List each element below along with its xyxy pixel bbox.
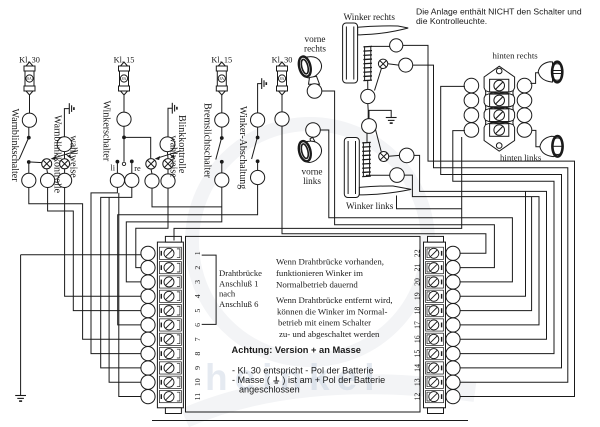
svg-text:betrieb mit einem Schalter: betrieb mit einem Schalter [278, 318, 371, 328]
rear terminal left [464, 93, 479, 108]
wire lamp to common diagonal [375, 68, 382, 90]
junction [220, 136, 224, 140]
svg-text:hinten links: hinten links [500, 152, 542, 162]
screw terminal 17 [446, 318, 460, 332]
junction switch bottom [27, 160, 31, 164]
coil winker rechts (solenoid) [363, 46, 372, 80]
svg-text:Kl. 30: Kl. 30 [272, 56, 293, 65]
terminal [145, 174, 159, 188]
screw terminal 8 [141, 347, 155, 361]
rear block mounting hole top [496, 68, 502, 74]
svg-text:16: 16 [412, 335, 421, 343]
wire switch common [123, 137, 125, 161]
svg-text:Drahtbrücke: Drahtbrücke [219, 268, 262, 278]
rear screw terminal 4 [490, 124, 509, 137]
arrow wahlweise group2 [156, 151, 181, 160]
wire [257, 127, 259, 137]
contact li [116, 160, 120, 164]
ground glyph in text [273, 377, 279, 384]
terminal winker links top [362, 119, 377, 134]
wire coil bottom to terminal [367, 174, 390, 177]
lamp winker rechts [378, 59, 387, 68]
svg-text:Wenn Drahtbrücke entfernt wird: Wenn Drahtbrücke entfernt wird, [276, 295, 393, 305]
screw terminal 15 [446, 347, 460, 361]
svg-text:) ist am + Pol der Batterie: ) ist am + Pol der Batterie [282, 375, 385, 385]
screw terminal 20 [446, 275, 460, 289]
svg-text:die Kontrolleuchte.: die Kontrolleuchte. [416, 16, 487, 26]
wire Warnblink out to terminal 7 [29, 188, 141, 340]
terminal strip left (1-11) [157, 242, 183, 408]
svg-text:Die Anlage enthält NICHT den S: Die Anlage enthält NICHT den Schalter un… [416, 7, 582, 17]
svg-text:13: 13 [412, 378, 421, 386]
svg-text:- Masse (: - Masse ( [232, 375, 270, 385]
svg-text:Achtung: Version + an Masse: Achtung: Version + an Masse [232, 345, 361, 355]
terminal re [125, 173, 139, 187]
screw terminal 3 [141, 275, 155, 289]
wire winker links lamp to terminal 16 [414, 155, 547, 339]
lamp vorne rechts [297, 55, 322, 84]
svg-text:funktionieren Winker im: funktionieren Winker im [276, 268, 363, 278]
svg-text:angeschlossen: angeschlossen [239, 385, 300, 395]
switch Warnblinkschalter blade [19, 139, 28, 160]
rear terminal left [464, 123, 479, 138]
rear screw terminal 1 [490, 79, 509, 92]
terminal vorne links [306, 123, 321, 138]
wire [131, 161, 133, 173]
screw terminal 19 [446, 289, 460, 303]
screw terminal 9 [141, 361, 155, 375]
watermark logo [185, 124, 475, 418]
wire c3 to terminal 4 [65, 188, 141, 297]
wire [64, 169, 66, 174]
svg-text:15: 15 [412, 350, 421, 358]
svg-text:können die Winker im Normal-: können die Winker im Normal- [277, 306, 387, 316]
svg-text:nach: nach [219, 289, 236, 299]
svg-text:li: li [111, 164, 116, 173]
svg-text:8A: 8A [27, 77, 32, 81]
wire Blinkkontrolle lamp to terminal 2 [136, 188, 168, 268]
wire to ground [64, 109, 69, 137]
wire up to ground line [368, 110, 370, 118]
switch Winkerschalter pivot [122, 162, 125, 165]
svg-text:wahlweise: wahlweise [167, 136, 178, 179]
wire Kl30 supply to terminal 22 [282, 126, 486, 253]
fuse fuse Kl. 30 (Warnblinkschalter) [24, 62, 35, 95]
terminal winker rechts lamp [399, 58, 413, 72]
wire to terminal 5 [48, 188, 141, 311]
wire to lamp [31, 161, 42, 164]
wire to terminal 11 [119, 193, 141, 397]
wire winker rechts top to terminal 12 [403, 45, 575, 396]
svg-text:wahlweise: wahlweise [68, 136, 79, 179]
ground Winker-Abschaltung [262, 78, 267, 89]
fuse fuse Kl. 15 (Winkerschalter) [119, 62, 130, 95]
rear terminal right [517, 108, 532, 123]
terminal Warnblinkschalter out [22, 173, 36, 187]
lamp hinten rechts [538, 62, 562, 83]
wire rear right 1 to hinten rechts lamp [530, 73, 539, 84]
wire Abschaltung to terminal 6 [118, 185, 258, 325]
screw terminal 22 [446, 246, 460, 260]
wire li to terminal 8 [91, 187, 141, 353]
wire [257, 161, 259, 170]
wire arm area to junction [397, 196, 462, 209]
ground winker [386, 118, 397, 124]
terminal Bremslicht out [215, 173, 229, 187]
wire [64, 152, 66, 159]
relay unit box [186, 236, 421, 412]
rear junction block body [484, 66, 514, 151]
wire [388, 64, 399, 65]
svg-text:17: 17 [412, 321, 421, 329]
wire [221, 127, 223, 138]
svg-text:Normalbetrieb dauernd: Normalbetrieb dauernd [276, 279, 358, 289]
svg-text:Wenn Drahtbrücke vorhanden,: Wenn Drahtbrücke vorhanden, [276, 257, 384, 267]
rear screw terminal 3 [490, 109, 509, 122]
wire to ground [258, 84, 262, 113]
svg-text:Winkerschalter: Winkerschalter [100, 101, 111, 162]
svg-text:6: 6 [193, 323, 202, 327]
terminal [161, 174, 175, 188]
svg-text:7: 7 [193, 337, 202, 341]
svg-text:11: 11 [193, 393, 202, 401]
ground Warnblinkkontrolle [69, 103, 74, 114]
rear terminal right [517, 123, 532, 138]
wire Blinkkontrolle lamp to Bremslicht column [152, 188, 222, 207]
terminal [58, 173, 72, 187]
terminal vorne rechts [307, 84, 322, 99]
svg-text:Kl. 15: Kl. 15 [114, 56, 135, 65]
wire vorne rechts to terminal 21 [322, 91, 495, 268]
terminal [251, 113, 265, 127]
screw terminal 16 [446, 332, 460, 346]
svg-text:21: 21 [412, 264, 421, 272]
rear block mounting hole bottom [496, 143, 502, 149]
svg-text:14: 14 [412, 364, 421, 372]
fuse fuse Kl. 30 (supply) [277, 62, 288, 95]
lamp Warnblinkkontrolle left [42, 159, 52, 169]
rear terminal left [464, 78, 479, 93]
terminal winker rechts common [361, 89, 375, 103]
wire [123, 95, 125, 112]
terminal [41, 173, 55, 187]
svg-text:8A: 8A [280, 77, 285, 81]
wire [28, 162, 30, 173]
switch Winker-Abschaltung blade [252, 138, 258, 159]
svg-text:Kl. 30: Kl. 30 [19, 56, 40, 65]
screw terminal 2 [141, 261, 155, 275]
jumper Drahtbruecke 1-6 [202, 255, 216, 324]
rear terminal left [464, 108, 479, 123]
lamp Blinkkontrolle right [163, 159, 173, 169]
wire vorne links to terminal 20 [320, 130, 512, 282]
svg-text:10: 10 [193, 378, 202, 386]
junction [256, 136, 260, 140]
svg-text:20: 20 [412, 278, 421, 286]
screw terminal 11 [141, 390, 155, 404]
unit lower chassis line [152, 420, 468, 422]
svg-text:2: 2 [193, 266, 202, 270]
svg-text:Winker links: Winker links [346, 201, 394, 211]
svg-text:8: 8 [193, 352, 202, 356]
svg-text:Winker rechts: Winker rechts [344, 12, 396, 22]
terminal winker links common [390, 168, 405, 183]
wire diagonal to lamp links [376, 130, 382, 152]
terminal below fuse Kl.30 [275, 112, 289, 126]
wire [389, 154, 400, 157]
lamp Warnblinkkontrolle right [60, 159, 70, 169]
svg-text:re: re [134, 164, 141, 173]
svg-text:1: 1 [193, 251, 202, 255]
rear terminal right [517, 93, 532, 108]
wire to terminal 10 [109, 197, 141, 382]
wire [46, 169, 49, 174]
ground Blinkkontrolle [172, 103, 177, 114]
relay unit box fill [186, 236, 421, 412]
terminal below fuse Kl.30 [22, 113, 36, 127]
switch Bremslichtschalter blade [216, 139, 222, 160]
wire re to terminal 9 [101, 187, 141, 368]
wire fuse1 to terminal [29, 95, 31, 113]
wire [167, 169, 169, 174]
svg-text:12: 12 [412, 393, 421, 401]
terminal below fuse [215, 113, 229, 127]
wire rear left 1 to terminal 14 [441, 86, 562, 368]
svg-text:zu- und abgeschaltet werden: zu- und abgeschaltet werden [279, 329, 380, 339]
wire ground to terminal 1 [21, 254, 141, 256]
svg-text:Kl. 15: Kl. 15 [211, 56, 232, 65]
terminal winker links lamp [399, 148, 414, 163]
svg-text:Warnblinkkontrolle: Warnblinkkontrolle [52, 115, 63, 194]
trafficator arm rechts [358, 26, 409, 35]
svg-text:Warnblinkschalter: Warnblinkschalter [9, 109, 20, 183]
screw terminal 21 [446, 261, 460, 275]
lamp hinten links [540, 136, 563, 157]
ground bottom left [15, 396, 26, 402]
wire coil to terminal [371, 45, 390, 47]
screw terminal 4 [141, 289, 155, 303]
junction [256, 159, 260, 163]
wire winker rechts lamp to terminal 13 [413, 65, 568, 382]
junction [220, 160, 224, 164]
screw terminal 5 [141, 304, 155, 318]
wire rear left 4 to terminal 15 [453, 131, 554, 354]
rear screw terminal 2 [490, 94, 509, 107]
wire [221, 162, 223, 173]
fuse fuse Kl. 15 (Bremslichtschalter) [216, 62, 227, 95]
wire [221, 95, 223, 113]
wire [28, 127, 30, 137]
wire rear right 4 to hinten links lamp [532, 130, 540, 146]
svg-text:5: 5 [193, 309, 202, 313]
trafficator arm links [359, 186, 411, 195]
screw terminal 14 [446, 361, 460, 375]
svg-text:9: 9 [193, 366, 202, 370]
wire [151, 169, 152, 174]
wire to ground [368, 110, 391, 117]
svg-text:18: 18 [412, 307, 421, 315]
wire [166, 152, 169, 159]
svg-text:links: links [303, 176, 321, 186]
svg-text:Bremslichtschalter: Bremslichtschalter [201, 103, 212, 179]
wire to Blinkkontrolle lamp [124, 137, 151, 158]
wire Bremslicht to terminal 3 [126, 187, 222, 282]
terminal strip right (12-22) [424, 242, 446, 408]
terminal winker rechts top [390, 39, 403, 52]
svg-text:rechts: rechts [304, 44, 326, 54]
svg-text:8A: 8A [122, 77, 127, 81]
arrow wahlweise group1 [52, 151, 78, 160]
screw terminal 10 [141, 375, 155, 389]
screw terminal 18 [446, 304, 460, 318]
svg-text:3: 3 [193, 280, 202, 284]
wire common down [367, 104, 369, 119]
terminal li [110, 173, 124, 187]
terminal below fuse Kl.15 [117, 112, 131, 126]
screw terminal 1 [141, 246, 155, 260]
screw terminal 6 [141, 318, 155, 332]
svg-text:22: 22 [412, 249, 421, 257]
wire coil bottom [367, 80, 369, 89]
wire [281, 95, 283, 112]
svg-text:8A: 8A [220, 77, 225, 81]
wire [123, 126, 125, 137]
lamp vorne links [297, 137, 322, 162]
svg-text:4: 4 [193, 294, 202, 298]
junction switch top [27, 136, 31, 140]
terminal Abschaltung out [251, 170, 265, 184]
screw terminal 13 [446, 375, 460, 389]
wire strip tab to rear block [174, 137, 462, 241]
coil winker links (solenoid) [362, 142, 371, 176]
wire winker links common to terminal 17 [404, 175, 539, 325]
wire [116, 162, 118, 174]
svg-text:Winker-Abschaltung: Winker-Abschaltung [237, 106, 248, 189]
control device Blinkkontrolle [160, 137, 175, 152]
trafficator housing rechts [343, 23, 358, 83]
wire terminal 19 up [460, 191, 526, 296]
control device Warnblinkkontrolle [57, 137, 72, 152]
svg-text:Anschluß 6: Anschluß 6 [219, 299, 259, 309]
svg-text:Anschluß 1: Anschluß 1 [219, 278, 258, 288]
svg-text:19: 19 [412, 292, 421, 300]
wire to ground [168, 108, 172, 137]
trafficator housing links [344, 138, 359, 198]
lamp Blinkkontrolle left [146, 159, 156, 169]
screw terminal 12 [446, 390, 460, 404]
lamp winker links [379, 152, 389, 162]
wire ground drop [20, 255, 22, 396]
screw terminal 7 [141, 332, 155, 346]
wire terminal 18 up [460, 197, 532, 311]
contact re [130, 160, 134, 164]
junction Winkerschalter [122, 136, 126, 140]
rear terminal right [517, 78, 532, 93]
svg-text:- Kl. 30 entspricht - Pol der: - Kl. 30 entspricht - Pol der Batterie [232, 365, 374, 375]
svg-text:hinten rechts: hinten rechts [493, 51, 539, 61]
wire to coil [366, 133, 368, 142]
